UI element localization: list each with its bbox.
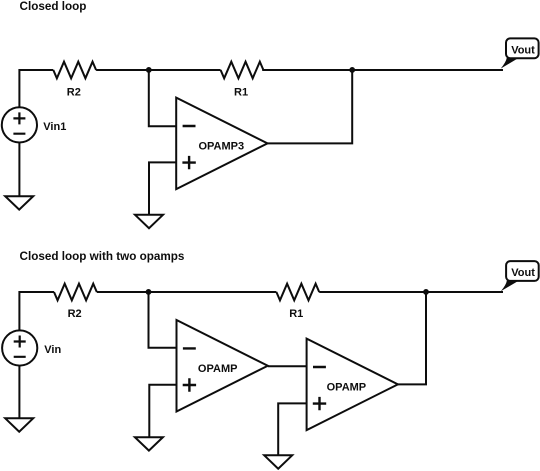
svg-text:R2: R2 xyxy=(68,308,82,320)
svg-text:R1: R1 xyxy=(289,308,303,320)
svg-text:Vin: Vin xyxy=(44,344,61,356)
svg-text:Vin1: Vin1 xyxy=(43,121,66,133)
svg-text:Closed loop with two opamps: Closed loop with two opamps xyxy=(20,250,185,263)
svg-text:OPAMP: OPAMP xyxy=(327,382,367,394)
svg-text:Closed loop: Closed loop xyxy=(20,0,87,13)
svg-text:OPAMP3: OPAMP3 xyxy=(198,140,244,152)
svg-text:R2: R2 xyxy=(67,87,81,99)
svg-text:OPAMP: OPAMP xyxy=(198,363,238,375)
svg-text:R1: R1 xyxy=(234,87,248,99)
